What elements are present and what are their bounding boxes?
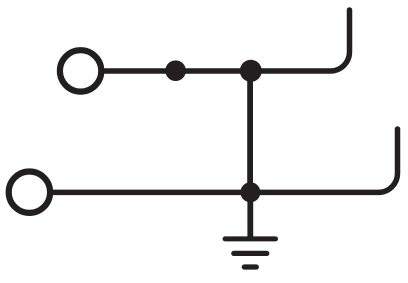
wire top row with right hook	[104, 10, 350, 71]
junction dot (bottom tee)	[240, 182, 260, 202]
ground bar 2	[234, 251, 267, 256]
terminal circle (top contact)	[60, 50, 101, 91]
junction dot (top left)	[165, 60, 186, 81]
ground bar 3	[244, 264, 256, 269]
wire vertical tie	[247, 71, 253, 192]
junction dot (top tee)	[240, 60, 262, 82]
wire bottom row with right hook	[53, 129, 398, 192]
wire ground stub	[247, 192, 253, 239]
ground bar 1	[225, 236, 275, 241]
terminal circle (bottom contact)	[9, 172, 50, 213]
